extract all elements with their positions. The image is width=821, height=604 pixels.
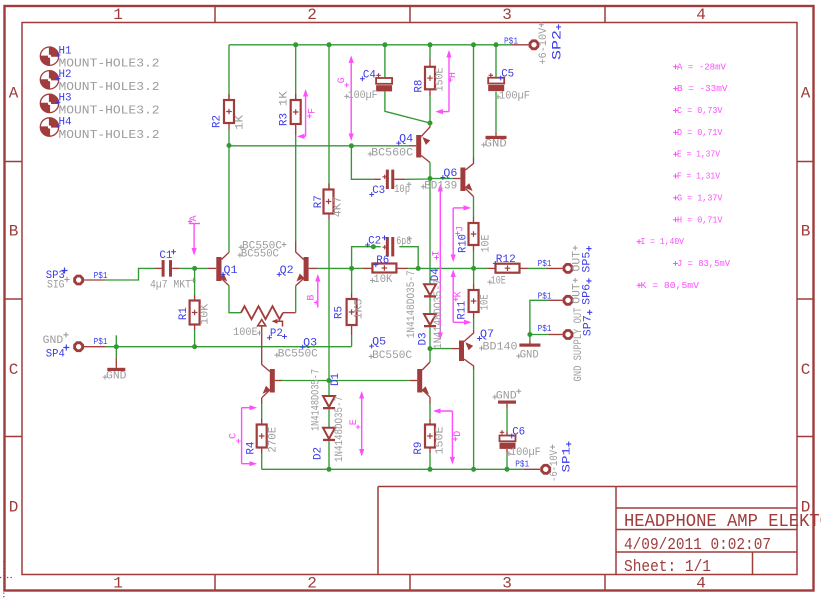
svg-text:1: 1 — [113, 575, 123, 593]
svg-text:BC550C: BC550C — [278, 349, 318, 361]
svg-text:10E: 10E — [480, 294, 492, 310]
svg-text:B: B — [9, 222, 19, 240]
svg-text:10E: 10E — [491, 276, 506, 288]
svg-text:1K5: 1K5 — [353, 299, 365, 320]
svg-text:A: A — [801, 84, 811, 102]
svg-text:R10: R10 — [458, 234, 470, 253]
svg-text:R6: R6 — [376, 255, 389, 267]
svg-text:Q2: Q2 — [280, 265, 294, 277]
svg-text:R3: R3 — [278, 113, 290, 126]
svg-text:100E: 100E — [233, 327, 258, 339]
svg-text:R1: R1 — [178, 307, 190, 320]
svg-text:2: 2 — [307, 575, 317, 593]
svg-text:D: D — [453, 431, 464, 437]
svg-text:D = 0,71V: D = 0,71V — [677, 127, 723, 138]
svg-text:10K: 10K — [200, 303, 212, 324]
svg-text:Q5: Q5 — [372, 337, 386, 349]
svg-text:H4: H4 — [59, 116, 72, 128]
svg-text:BC560C: BC560C — [371, 148, 413, 160]
svg-text:R9: R9 — [413, 442, 425, 455]
svg-text:GND SUPPLY OUT: GND SUPPLY OUT — [573, 307, 585, 381]
svg-text:4/09/2011 0:02:07: 4/09/2011 0:02:07 — [624, 536, 771, 555]
svg-text:270E: 270E — [268, 426, 280, 452]
svg-text:+6-10V: +6-10V — [538, 27, 550, 64]
svg-text:H = 0,71V: H = 0,71V — [677, 214, 723, 225]
svg-text:A = -28mV: A = -28mV — [677, 61, 726, 72]
svg-text:K: K — [454, 291, 465, 297]
svg-text:P$1: P$1 — [538, 324, 552, 334]
svg-text:2: 2 — [307, 6, 317, 24]
svg-text:MOUNT-HOLE3.2: MOUNT-HOLE3.2 — [59, 81, 160, 94]
svg-text:E: E — [349, 419, 360, 425]
svg-text:10K: 10K — [373, 274, 392, 286]
svg-text:D2: D2 — [313, 447, 325, 460]
svg-text:4: 4 — [696, 6, 706, 24]
svg-text:R4: R4 — [245, 441, 257, 454]
svg-text:G: G — [337, 77, 348, 83]
svg-text:H3: H3 — [59, 93, 72, 105]
svg-text:100µF: 100µF — [348, 90, 378, 102]
svg-text:100µF: 100µF — [499, 90, 530, 102]
svg-text:Q6: Q6 — [443, 168, 457, 180]
svg-text:BD139: BD139 — [424, 180, 457, 192]
svg-text:1K: 1K — [278, 91, 290, 106]
svg-text:10p: 10p — [394, 184, 410, 196]
svg-text:R2: R2 — [212, 115, 224, 128]
svg-text:P$1: P$1 — [504, 36, 518, 46]
svg-text:C: C — [801, 361, 811, 379]
svg-text:B = -33mV: B = -33mV — [677, 83, 728, 94]
svg-text:C6: C6 — [512, 427, 525, 439]
svg-text:E = 1,37V: E = 1,37V — [677, 149, 720, 160]
svg-text:R5: R5 — [333, 306, 345, 319]
svg-text:BC550C: BC550C — [372, 350, 412, 362]
svg-text:P$1: P$1 — [538, 259, 552, 269]
svg-text:4K7: 4K7 — [333, 196, 345, 217]
svg-text:H: H — [448, 72, 459, 78]
svg-text:P$1: P$1 — [94, 271, 108, 281]
svg-text:3: 3 — [502, 575, 512, 593]
svg-text:GND: GND — [496, 391, 517, 403]
svg-text:J = 83,5mV: J = 83,5mV — [677, 258, 730, 269]
svg-text:G = 1,37V: G = 1,37V — [677, 192, 723, 203]
svg-text:J: J — [455, 226, 466, 232]
svg-text:I = 1,40V: I = 1,40V — [641, 236, 685, 247]
svg-text:SP2: SP2 — [550, 30, 564, 60]
svg-text:1N4148DO35-7: 1N4148DO35-7 — [311, 369, 323, 431]
svg-text:R12: R12 — [496, 254, 516, 266]
svg-text:SIG: SIG — [47, 279, 65, 291]
svg-text:Q1: Q1 — [224, 265, 238, 277]
svg-text:K = 80,5mV: K = 80,5mV — [641, 280, 700, 291]
svg-text:F: F — [307, 108, 318, 114]
svg-text:C4: C4 — [363, 69, 376, 81]
svg-text:H1: H1 — [59, 46, 72, 58]
svg-text:HEADPHONE AMP ELEKTO: HEADPHONE AMP ELEKTO — [624, 511, 821, 532]
svg-text:R11: R11 — [456, 300, 468, 319]
svg-text:Q4: Q4 — [399, 134, 413, 146]
svg-text:GND: GND — [485, 138, 507, 150]
svg-text:BD140: BD140 — [483, 342, 518, 354]
svg-text:1N4148DO35-7: 1N4148DO35-7 — [433, 279, 445, 349]
svg-text:MOUNT-HOLE3.2: MOUNT-HOLE3.2 — [59, 129, 160, 142]
svg-text:D3: D3 — [418, 333, 430, 346]
svg-text:Q7: Q7 — [480, 329, 494, 341]
svg-text:MOUNT-HOLE3.2: MOUNT-HOLE3.2 — [59, 58, 160, 71]
svg-text:P$1: P$1 — [515, 459, 529, 469]
svg-text:GND: GND — [106, 371, 127, 383]
svg-text:C: C — [9, 361, 19, 379]
svg-text:OUT: OUT — [572, 283, 584, 304]
svg-text:150E: 150E — [434, 426, 446, 454]
svg-text:MOUNT-HOLE3.2: MOUNT-HOLE3.2 — [59, 105, 160, 118]
svg-text:C1: C1 — [159, 250, 172, 262]
svg-text:D: D — [9, 498, 19, 516]
svg-text:H2: H2 — [59, 69, 72, 81]
svg-text:C5: C5 — [501, 69, 514, 81]
svg-text:1N4148DO35-7: 1N4148DO35-7 — [406, 270, 418, 338]
svg-text:C2: C2 — [368, 236, 381, 248]
svg-text:150E: 150E — [435, 67, 447, 91]
svg-text:1K: 1K — [235, 115, 247, 130]
svg-text:SP4: SP4 — [46, 349, 65, 361]
svg-text:10E: 10E — [480, 234, 492, 252]
svg-text:P$1: P$1 — [94, 337, 108, 347]
svg-text:1N4148DO35-7: 1N4148DO35-7 — [334, 396, 346, 462]
svg-text:Sheet: 1/1: Sheet: 1/1 — [624, 558, 711, 577]
svg-text:C: C — [229, 433, 240, 439]
svg-text:BC550C: BC550C — [241, 249, 279, 261]
svg-text:D1: D1 — [330, 373, 342, 386]
svg-text:C3: C3 — [372, 185, 385, 197]
svg-text:A: A — [189, 215, 200, 221]
svg-text:P2: P2 — [270, 328, 283, 340]
svg-text:1: 1 — [113, 6, 123, 24]
svg-text:GND: GND — [43, 335, 64, 347]
svg-text:OUT: OUT — [572, 251, 584, 272]
svg-text:B: B — [801, 222, 811, 240]
svg-text:A: A — [9, 84, 19, 102]
svg-text:4: 4 — [696, 575, 706, 593]
svg-text:R7: R7 — [313, 195, 325, 208]
svg-text:GND: GND — [520, 350, 539, 362]
svg-text:F = 1,31V: F = 1,31V — [677, 171, 720, 182]
svg-text:P$1: P$1 — [538, 291, 552, 301]
svg-text:3: 3 — [502, 6, 512, 24]
svg-text:R8: R8 — [413, 80, 425, 93]
svg-text:B: B — [307, 295, 318, 301]
svg-text:100µF: 100µF — [510, 447, 541, 459]
svg-text:SP1: SP1 — [562, 447, 574, 473]
svg-text:4µ7 MKT: 4µ7 MKT — [150, 279, 191, 291]
svg-text:C = 0,73V: C = 0,73V — [677, 105, 723, 116]
svg-text:-6-10V: -6-10V — [549, 450, 561, 482]
